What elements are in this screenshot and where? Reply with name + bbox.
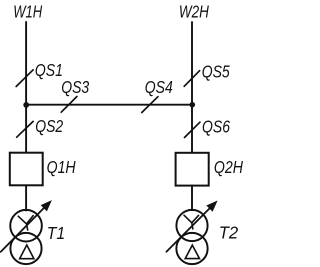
svg-text:QS3: QS3 — [61, 77, 89, 97]
svg-text:QS5: QS5 — [202, 62, 230, 82]
svg-text:T1: T1 — [47, 223, 65, 243]
transformer T2 tap-changer arrow — [166, 201, 217, 252]
disconnector QS3 — [61, 77, 89, 112]
svg-text:QS1: QS1 — [35, 60, 63, 80]
node W1H label — [13, 1, 42, 21]
wire Q2H to T2 — [191, 186, 193, 211]
node W2H label — [179, 1, 209, 21]
svg-text:QS4: QS4 — [145, 77, 173, 97]
svg-text:W2H: W2H — [179, 1, 209, 21]
transformer T2 primary winding (circle, wye) — [176, 210, 207, 241]
svg-text:QS6: QS6 — [202, 116, 230, 136]
wire W2H feeder (right vertical, top) — [191, 22, 193, 153]
disconnector QS6 — [185, 116, 231, 137]
wire Q1H to T1 — [25, 185, 27, 210]
svg-text:Q2H: Q2H — [214, 157, 243, 177]
disconnector QS2 — [17, 116, 64, 137]
transformer T1 secondary winding (circle, delta) — [10, 233, 41, 264]
transformer T2 secondary winding (circle, delta) — [176, 233, 207, 264]
breaker Q1H — [10, 153, 76, 186]
svg-text:T2: T2 — [219, 222, 239, 242]
label T2 — [219, 222, 239, 242]
disconnector QS5 — [184, 62, 230, 87]
wire W1H feeder (left vertical, top) — [25, 22, 27, 153]
junction node left (bus tap) — [23, 102, 29, 108]
junction node right (bus tap) — [190, 102, 196, 108]
disconnector QS1 — [16, 60, 63, 87]
wire bus tie (horizontal) — [26, 104, 192, 106]
label T1 — [47, 223, 65, 243]
svg-text:W1H: W1H — [13, 1, 42, 21]
transformer T1 tap-changer arrow — [1, 200, 52, 252]
transformer T1 primary winding (circle, wye) — [10, 210, 42, 242]
breaker Q2H — [176, 153, 244, 186]
svg-text:QS2: QS2 — [35, 116, 63, 136]
disconnector QS4 — [142, 77, 173, 113]
svg-text:Q1H: Q1H — [47, 157, 76, 177]
